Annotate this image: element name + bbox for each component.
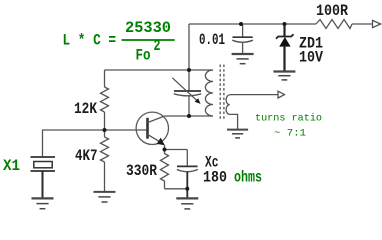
wire secondary output lead bbox=[230, 94, 278, 96]
transistor Q1 base bar bbox=[146, 118, 149, 139]
svg-text:10V: 10V bbox=[299, 49, 324, 67]
svg-text:100R: 100R bbox=[316, 2, 349, 20]
resistor 12K zigzag bbox=[101, 87, 109, 112]
svg-text:X1: X1 bbox=[3, 157, 20, 175]
junction bottom tie bbox=[185, 187, 189, 191]
transistor Q1 collector bbox=[148, 116, 165, 123]
transistor Q1 emitter bbox=[148, 134, 162, 142]
node supply arrow terminal bbox=[373, 20, 381, 27]
svg-text:25330: 25330 bbox=[125, 19, 171, 37]
variable capacitor curved plate bbox=[174, 94, 201, 96]
svg-text:12K: 12K bbox=[74, 100, 98, 118]
svg-text:turns ratio: turns ratio bbox=[255, 113, 322, 125]
variable capacitor top plate bbox=[174, 90, 201, 92]
formula fraction bar bbox=[122, 39, 175, 41]
wire secondary bottom lead bbox=[230, 114, 238, 129]
wire collector rail to transformer bottom bbox=[165, 115, 214, 117]
capacitor 0.01 stem bottom bbox=[242, 43, 244, 54]
ground ZD1 bbox=[273, 72, 295, 80]
inductor transformer secondary winding bbox=[226, 95, 230, 114]
wire rail to output resistor bbox=[352, 23, 373, 25]
zener ZD1 stem top bbox=[283, 24, 285, 36]
ground 0.01 bbox=[232, 54, 254, 64]
wire emitter junction to Xc bbox=[165, 149, 188, 151]
resistor 330R zigzag bbox=[161, 150, 169, 189]
wire 4K7 to ground bbox=[104, 162, 106, 192]
svg-text:4K7: 4K7 bbox=[75, 147, 98, 165]
wire supply top rail bbox=[189, 23, 316, 25]
transistor Q1 emitter arrow bbox=[157, 138, 165, 146]
capacitor 0.01 top plate bbox=[233, 36, 253, 38]
wire crystal to transistor base bbox=[43, 130, 148, 157]
zener ZD1 triangle bbox=[279, 37, 290, 47]
svg-text:~ 7:1: ~ 7:1 bbox=[274, 128, 306, 140]
junction base divider bbox=[103, 128, 107, 132]
inductor transformer primary winding bbox=[205, 70, 213, 116]
zener ZD1 cathode bar bbox=[276, 34, 294, 38]
capacitor 0.01 curved plate bbox=[232, 40, 253, 42]
svg-text:0.01: 0.01 bbox=[199, 31, 225, 49]
svg-text:Fo: Fo bbox=[136, 47, 151, 65]
wire crystal to ground bbox=[42, 171, 44, 198]
junction rail and ZD1 bbox=[283, 22, 287, 26]
ground X1 bbox=[32, 198, 54, 208]
wire 12K top lead bbox=[104, 70, 106, 87]
capacitor Xc top plate bbox=[177, 165, 198, 167]
crystal X1 bottom plate bbox=[31, 170, 56, 172]
wire left vertical upper segment bbox=[188, 24, 190, 91]
svg-text:180: 180 bbox=[203, 168, 227, 186]
zener ZD1 stem bottom bbox=[283, 47, 285, 72]
svg-text:L * C =: L * C = bbox=[63, 32, 117, 50]
node output arrow terminal bbox=[278, 91, 285, 98]
transistor Q1 circle bbox=[136, 112, 168, 144]
ground 330R and Xc bbox=[176, 198, 198, 209]
wire left vertical lower segment bbox=[188, 95, 190, 116]
svg-text:330R: 330R bbox=[126, 162, 158, 180]
svg-text:2: 2 bbox=[154, 37, 161, 55]
wire bottom tie 330R to Xc bbox=[165, 188, 188, 190]
junction collector rail and tank bottom bbox=[187, 114, 191, 118]
ground secondary bbox=[227, 130, 248, 138]
junction bias rail and tank top bbox=[187, 68, 191, 72]
capacitor Xc curved plate bbox=[177, 170, 198, 172]
crystal X1 top plate bbox=[31, 156, 56, 158]
wire emitter down lead bbox=[164, 145, 166, 150]
wire 12K to 4K7 junction bbox=[104, 112, 106, 137]
capacitor Xc stem top bbox=[186, 150, 188, 167]
ground 4K7 bbox=[94, 192, 116, 202]
resistor 4K7 zigzag bbox=[101, 137, 109, 162]
crystal X1 body bbox=[34, 162, 52, 168]
svg-text:ohms: ohms bbox=[234, 168, 262, 186]
resistor 100R zigzag bbox=[316, 20, 352, 29]
variable capacitor arrow bbox=[172, 78, 197, 101]
capacitor Xc stem bottom bbox=[186, 172, 188, 198]
transformer core bbox=[220, 65, 224, 121]
junction emitter node bbox=[163, 148, 167, 152]
junction rail and 0.01 bbox=[239, 22, 243, 26]
wire bias rail to transformer top bbox=[105, 69, 214, 71]
capacitor 0.01 stem top bbox=[242, 24, 244, 37]
